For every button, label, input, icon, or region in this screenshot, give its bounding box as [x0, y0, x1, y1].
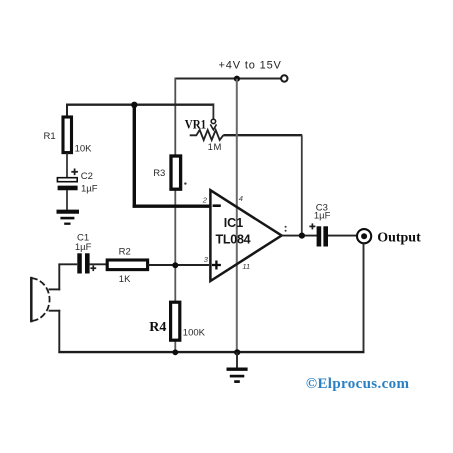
svg-text:R2: R2 [119, 246, 131, 257]
op-amp U1 triangle outline [210, 190, 281, 281]
label + (C1 polarity) [90, 265, 96, 271]
potentiometer VR1 wiper line [212, 103, 214, 119]
svg-text:C2: C2 [81, 171, 93, 182]
wire: thick vertical from junction down [133, 103, 136, 207]
svg-text:R4: R4 [149, 320, 166, 335]
resistor R1 [63, 117, 72, 153]
potentiometer VR1 zigzag body [190, 130, 224, 140]
op-amp IC1 fill [210, 190, 281, 281]
node: supply junction dot [234, 76, 240, 82]
label + (C2 polarity) [71, 169, 78, 176]
wire: R4 bottom to ground rail [174, 341, 176, 353]
svg-text:4: 4 [239, 194, 243, 203]
resistor R2 [107, 260, 147, 270]
wire: VR1 right lead to feedback corner [223, 134, 302, 136]
wire: C1 left lead [58, 263, 77, 265]
pin 1 tick marks [285, 226, 287, 232]
node: center ground junction dot [234, 349, 240, 355]
wire: +V supply rail horizontal [175, 78, 285, 80]
svg-text:VR1: VR1 [185, 117, 206, 131]
capacitor C2 (polarized) [57, 178, 77, 188]
svg-text:Output: Output [377, 231, 421, 246]
wire: op-amp output to C3 [281, 235, 317, 237]
wire: output jack down [363, 243, 365, 353]
wire: supply down to R3 (left elbow) [174, 78, 176, 156]
svg-text:R3: R3 [153, 168, 165, 179]
resistor R4 [171, 302, 180, 340]
wire: mic top lead up to C1 [58, 264, 60, 291]
wire: thick horizontal into inverting input [133, 204, 211, 207]
wire: mic bottom lead down to ground rail [58, 310, 60, 353]
wire: R2 to non-inverting input [148, 264, 209, 266]
artifact dot near R3 [184, 182, 186, 184]
wire: R3 bottom to non-inverting node [174, 190, 176, 266]
potentiometer VR1 wiper arrow [210, 119, 216, 130]
microphone MIC1 [31, 277, 49, 323]
svg-text:11: 11 [242, 262, 250, 271]
svg-text:1µF: 1µF [81, 183, 98, 194]
capacitor C3 [317, 226, 328, 246]
node: output junction dot [299, 233, 305, 239]
svg-text:2: 2 [202, 195, 208, 204]
svg-text:1µF: 1µF [314, 211, 331, 222]
node: inverting feed junction dot [131, 102, 137, 108]
op-amp minus input symbol [213, 204, 221, 207]
wire: top-left horizontal (R1 top to VR1 wiper line) [66, 104, 213, 106]
node: R4 ground junction dot [172, 349, 178, 355]
wire: C3 to output jack [328, 235, 357, 237]
label + (C3 polarity) [309, 223, 315, 229]
svg-text:1µF: 1µF [75, 242, 92, 253]
wire: V+/V- power line through IC (pin4 to pin11) [236, 79, 238, 353]
node: non-inverting junction dot [172, 262, 178, 268]
svg-text:+4V to 15V: +4V to 15V [219, 60, 282, 72]
op-amp plus input symbol [212, 261, 221, 270]
wire: bottom ground rail [58, 351, 364, 353]
wire: R1 bottom to C2 [66, 153, 68, 178]
wire: non-inverting node down to R4 [174, 265, 176, 301]
svg-text:©Elprocus.com: ©Elprocus.com [306, 376, 410, 392]
wire: stub to ground symbol [236, 352, 238, 368]
svg-text:TL084: TL084 [216, 232, 251, 246]
svg-text:1K: 1K [119, 274, 131, 285]
wire: C1 to R2 [90, 263, 107, 265]
ground (center bottom) [227, 369, 248, 381]
ground (below C2) [57, 212, 80, 224]
svg-text:10K: 10K [75, 144, 93, 155]
svg-text:R1: R1 [44, 131, 56, 142]
power terminal (+4V to 15V) open circle [281, 75, 287, 81]
wire: C2 to ground [66, 190, 68, 211]
wire: mic bottom lead [49, 310, 61, 312]
output jack (circle with dot) [357, 229, 371, 243]
capacitor C1 (polarized) [77, 253, 89, 273]
svg-text:1M: 1M [208, 142, 222, 153]
wire: feedback vertical down to output node [301, 135, 303, 235]
svg-text:100K: 100K [183, 327, 206, 338]
wire: mic top lead [49, 288, 61, 290]
wire: elbow down to R1 top [66, 104, 68, 117]
svg-text:IC1: IC1 [224, 216, 244, 230]
resistor R3 [171, 156, 181, 189]
